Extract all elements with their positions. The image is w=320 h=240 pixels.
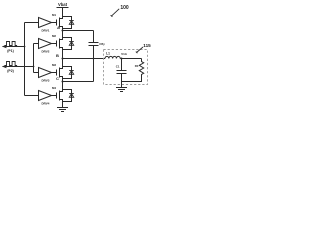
body diode D4 [63, 90, 74, 102]
junction P2/bus2 [33, 66, 35, 68]
svg-text:V1A: V1A [121, 52, 128, 56]
svg-text:M2: M2 [52, 34, 56, 38]
transistor M1 [52, 13, 63, 29]
svg-text:R1: R1 [135, 64, 139, 68]
wire load bottom [122, 78, 142, 82]
inductor L1 [105, 52, 120, 59]
ground (stack) [57, 108, 68, 112]
body diode D3 [63, 67, 74, 79]
transistor M3 [52, 63, 63, 79]
svg-text:Vbat: Vbat [58, 2, 68, 7]
wire DRV2 input stub [34, 43, 39, 45]
driver U3 [39, 68, 57, 83]
node C [62, 81, 64, 83]
wire M2 source to M3 drain [62, 50, 64, 67]
svg-text:(P1): (P1) [7, 49, 13, 53]
wire DRV4 input stub [25, 95, 39, 97]
svg-text:(P2): (P2) [7, 69, 13, 73]
driver U1 [39, 18, 57, 33]
svg-text:Cfly: Cfly [99, 42, 105, 46]
wire Vbat to M1 drain [62, 8, 64, 17]
input P2 pulse source [2, 62, 34, 74]
wire DRV3 input stub [34, 72, 39, 74]
transistor M2 [52, 34, 63, 50]
svg-text:DRV1: DRV1 [42, 29, 50, 33]
wire M3 source to M4 drain [62, 79, 64, 90]
svg-text:L1: L1 [106, 52, 110, 56]
wire bus2 vertical (P2 to DRV2/DRV3) [33, 44, 35, 73]
wire node B to output filter [63, 58, 106, 60]
wire bus1 vertical (P1 to DRV1/DRV4) [24, 23, 26, 96]
dashed box load network 115 [104, 50, 148, 85]
svg-text:DRV3: DRV3 [42, 79, 50, 83]
svg-text:DRV4: DRV4 [42, 102, 50, 106]
load resistor R1 [135, 59, 144, 78]
driver U2 [39, 39, 57, 54]
wire node C to flying cap bottom [63, 81, 94, 83]
svg-text:M3: M3 [52, 63, 56, 67]
ground (load) [116, 88, 127, 92]
node V1A [121, 58, 123, 60]
svg-text:100: 100 [120, 5, 129, 11]
body diode D2 [63, 38, 74, 50]
svg-text:A: A [57, 25, 60, 30]
transistor M4 [52, 86, 63, 102]
svg-text:DRV2: DRV2 [42, 50, 50, 54]
svg-text:B: B [56, 53, 59, 58]
wire load to ground [121, 82, 123, 88]
flying capacitor Cfly [89, 31, 106, 82]
driver U4 [39, 91, 57, 106]
callout 100 [111, 5, 129, 17]
load capacitor C1 [116, 59, 127, 82]
svg-text:115: 115 [143, 43, 151, 48]
input P1 pulse source [2, 42, 25, 54]
callout 115 [136, 43, 151, 53]
wire M4 source to ground [62, 102, 64, 108]
junction P1/bus1 [24, 46, 26, 48]
power rail Vbat [57, 2, 69, 8]
wire inductor to resistor [120, 58, 141, 60]
svg-text:M4: M4 [52, 86, 56, 90]
junction flying cap / node B wire [93, 58, 95, 60]
svg-text:M1: M1 [52, 13, 56, 17]
node B [62, 58, 64, 60]
body diode D1 [63, 17, 74, 29]
svg-text:C1: C1 [116, 65, 120, 69]
wire node A to flying cap [63, 30, 94, 32]
node A [62, 30, 64, 32]
svg-text:C: C [56, 76, 59, 81]
wire DRV1 input stub [25, 22, 39, 24]
wire M1 source to M2 drain [62, 29, 64, 38]
